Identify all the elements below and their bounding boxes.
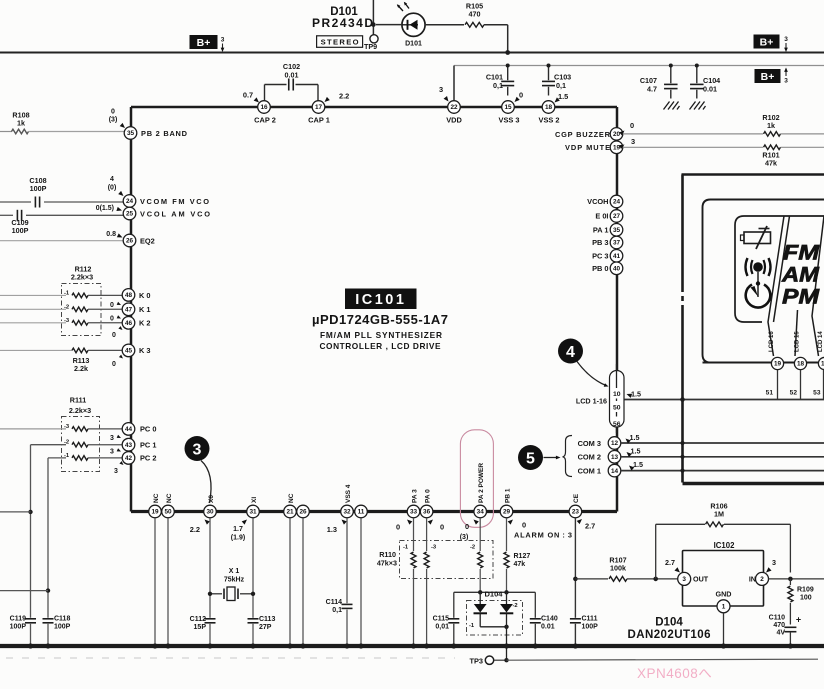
svg-text:K 2: K 2 (139, 318, 151, 327)
node ground junction (411, 643, 416, 648)
pin 43 PC 1 (122, 438, 135, 451)
svg-text:3: 3 (784, 78, 788, 85)
svg-text:PC 1: PC 1 (140, 440, 156, 449)
svg-text:OUT: OUT (693, 575, 709, 584)
node ground junction (424, 643, 429, 648)
wire stub left at y512 (0, 511, 31, 513)
svg-text:R109: R109 (797, 587, 814, 594)
node ground junction (533, 643, 538, 648)
wire stub left at y590 (0, 590, 48, 592)
svg-text:0.01: 0.01 (285, 71, 299, 80)
wire R110-1 to bus (413, 569, 415, 646)
wire R110-2 down (479, 569, 481, 592)
pin 14 COM 1 (608, 464, 621, 477)
svg-text:37: 37 (613, 240, 621, 247)
pin 19 bottom (149, 505, 162, 518)
node D104-1 anode junction (478, 590, 482, 594)
ground for C107 (664, 102, 680, 110)
pin 26 EQ2 (123, 234, 136, 247)
svg-text:CAP 2: CAP 2 (254, 116, 276, 125)
wire R112-3 to pin (88, 322, 122, 324)
svg-text:K 1: K 1 (139, 305, 151, 314)
svg-text:PB 1: PB 1 (504, 488, 511, 503)
resistor R127 (504, 552, 509, 568)
IC102 box (683, 551, 764, 607)
IC U101 outline left edge (130, 107, 133, 512)
svg-text:VCOH: VCOH (587, 197, 608, 206)
icon battery (crossed) (744, 232, 771, 244)
capacitor C108 (34, 197, 36, 208)
svg-text:100P: 100P (582, 624, 599, 631)
node ground junction (721, 643, 726, 648)
wire R108 to pin 35 (29, 131, 125, 133)
svg-text:15: 15 (504, 104, 512, 111)
svg-text:2.2k: 2.2k (74, 364, 88, 373)
svg-text:NC: NC (288, 493, 295, 503)
svg-text:2.2: 2.2 (190, 525, 200, 534)
wire K3 net (0, 349, 72, 351)
svg-text:26: 26 (126, 238, 134, 245)
svg-text:D104: D104 (485, 590, 504, 599)
LED emission arrows (398, 5, 404, 11)
svg-text:29: 29 (503, 509, 511, 516)
resistor R113 (72, 348, 88, 353)
node TP3 junction (504, 658, 508, 662)
svg-text:VDD: VDD (446, 116, 462, 125)
svg-text:0(1.5): 0(1.5) (96, 205, 114, 212)
ground for C104 (690, 102, 706, 110)
wire D104 cathode link (479, 613, 481, 627)
capacitor C103 wire (548, 66, 550, 81)
svg-text:TP9: TP9 (364, 42, 377, 51)
wire TP3 link (494, 659, 507, 661)
svg-text:25: 25 (126, 211, 134, 218)
wire from top to TP9 (372, 0, 374, 35)
svg-text:51: 51 (766, 390, 774, 397)
pin 22 VDD (448, 101, 461, 114)
capacitor C107 (664, 83, 678, 85)
node ground junction (165, 643, 170, 648)
wire K1 net left (0, 308, 66, 310)
svg-text:3: 3 (631, 137, 635, 146)
capacitor C115 (448, 618, 459, 620)
svg-text:2.7: 2.7 (665, 558, 675, 567)
node ground junction (207, 643, 212, 648)
node ground junction (45, 643, 50, 648)
wire C108 net (0, 201, 31, 203)
resistor R112-2 (72, 307, 88, 312)
wire R127 down (506, 569, 508, 592)
svg-text:1.5: 1.5 (558, 92, 568, 101)
svg-text:20: 20 (613, 131, 621, 138)
resistor network R112 dashed box (62, 284, 102, 336)
resistor network R111 dashed box (62, 417, 100, 472)
svg-text:X0: X0 (208, 495, 215, 503)
display inner box (703, 200, 824, 363)
svg-text:LCD 1-16: LCD 1-16 (576, 397, 607, 406)
wire LCD common (625, 399, 824, 401)
wire VDD riser (453, 66, 455, 102)
pin 44 PC 0 (122, 423, 135, 436)
pin 29 bottom (500, 505, 513, 518)
label STEREO box (317, 36, 363, 48)
capacitor C104 (690, 83, 704, 85)
svg-text:0: 0 (519, 91, 523, 100)
capacitor C101 (501, 80, 514, 82)
pin 47 K 1 (122, 303, 135, 316)
svg-text:PR2434D: PR2434D (312, 16, 373, 30)
svg-text:IN: IN (749, 575, 756, 584)
IC102 pin 3 OUT (678, 572, 691, 585)
wire pin 29 rail through bus to TP3 (506, 613, 508, 660)
node LED branch junction (371, 22, 376, 27)
svg-text:3: 3 (193, 442, 202, 459)
capacitor C114 (342, 603, 353, 605)
svg-text:-2: -2 (470, 545, 475, 551)
svg-text:0: 0 (396, 523, 400, 532)
pin 35 PB2 BAND (124, 127, 137, 140)
display outer box top edge (682, 173, 824, 176)
diode D104-1 (479, 592, 481, 604)
pin 18 VSS2 (542, 101, 555, 114)
svg-text:1.5: 1.5 (631, 447, 641, 456)
svg-text:4: 4 (110, 176, 114, 183)
wire COM 3 (621, 442, 824, 444)
svg-text:30: 30 (206, 509, 214, 516)
capacitor C102 bridge wires (264, 85, 266, 101)
svg-text:17: 17 (315, 104, 323, 111)
pin 26 bottom (297, 505, 310, 518)
svg-text:470: 470 (469, 10, 481, 19)
display pin 18 (794, 357, 806, 369)
svg-text:IC101: IC101 (355, 292, 406, 308)
svg-text:VDP MUTE: VDP MUTE (565, 143, 610, 152)
svg-text:CAP 1: CAP 1 (308, 116, 330, 125)
svg-text:FM: FM (783, 242, 820, 265)
pin 23 bottom (569, 505, 582, 518)
node COM 2 / display box edge (680, 455, 684, 459)
svg-text:10: 10 (613, 391, 621, 398)
svg-text:0: 0 (465, 522, 469, 531)
callout 5 arrow (544, 457, 558, 459)
svg-text:COM 2: COM 2 (578, 453, 601, 462)
node R105/bus junction (505, 50, 510, 55)
svg-text:GND: GND (716, 590, 732, 599)
crystal X1 (223, 589, 225, 600)
svg-text:+: + (796, 615, 801, 625)
svg-text:0,1: 0,1 (493, 81, 503, 90)
svg-text:3: 3 (114, 468, 118, 475)
svg-text:PA 3: PA 3 (411, 489, 418, 503)
svg-text:PB 3: PB 3 (592, 238, 608, 247)
callout 3 (185, 436, 210, 461)
svg-text:53: 53 (813, 390, 821, 397)
IC U101 outline bottom edge (131, 510, 617, 513)
svg-text:47k×3: 47k×3 (377, 559, 397, 568)
svg-text:34: 34 (477, 509, 485, 516)
wire pin 50 to ground bus (167, 518, 169, 646)
svg-text:-3: -3 (64, 318, 70, 324)
svg-text:(1.9): (1.9) (231, 535, 245, 542)
node ground junction (28, 643, 33, 648)
IC102 pin 1 GND (717, 600, 730, 613)
wire pin 21 to ground bus (289, 518, 291, 646)
node VDD net line (454, 65, 824, 67)
pin 15 VSS3 (502, 101, 515, 114)
wire pin 26 to ground bus (302, 518, 304, 646)
svg-text:100P: 100P (54, 624, 71, 631)
svg-text:44: 44 (125, 426, 133, 433)
wire C140 drop (534, 592, 536, 618)
svg-text:-2: -2 (64, 304, 69, 310)
wire C109 net (0, 214, 13, 216)
pin 46 K 2 (122, 317, 135, 330)
resistor R101 (764, 145, 781, 150)
svg-text:EQ2: EQ2 (140, 237, 155, 246)
pin 31 bottom (247, 505, 260, 518)
svg-text:C110: C110 (769, 615, 785, 622)
svg-text:35: 35 (613, 227, 621, 234)
svg-text:PC 3: PC 3 (592, 251, 608, 260)
svg-text:(3): (3) (109, 117, 118, 124)
svg-text:PM: PM (782, 286, 820, 309)
svg-text:18: 18 (545, 104, 553, 111)
svg-text:C111: C111 (582, 616, 598, 623)
svg-text:C140: C140 (541, 616, 558, 623)
svg-text:16: 16 (260, 104, 268, 111)
callout 3 leader curve (201, 461, 211, 504)
svg-text:2.2k×3: 2.2k×3 (69, 406, 91, 415)
wire pin 19 to ground bus (154, 518, 156, 646)
power B+ label 2 (top right) (754, 35, 780, 49)
svg-text:K 3: K 3 (139, 346, 151, 355)
svg-text:45: 45 (125, 348, 133, 355)
wire R106 feedback loop (655, 524, 657, 579)
pin 21 bottom (284, 505, 297, 518)
wire pin 32 rail (346, 518, 348, 603)
node ground junction (152, 643, 157, 648)
wire R110-3 to bus (426, 569, 428, 646)
svg-text:1.3: 1.3 (327, 525, 337, 534)
svg-text:470: 470 (773, 622, 785, 629)
wire C118 rail (47, 458, 49, 618)
node X1 left (208, 592, 212, 596)
wire R111-1 to pin (88, 457, 122, 459)
svg-text:XPN4608へ: XPN4608へ (637, 666, 712, 681)
svg-text:47: 47 (125, 307, 133, 314)
LCD group inner line segments (616, 364, 618, 388)
wire R101 right (781, 146, 824, 148)
wire C115 drop (453, 592, 455, 618)
svg-text:ALARM ON : 3: ALARM ON : 3 (514, 531, 572, 540)
pin 37 PB 3 (610, 236, 623, 249)
node D104-2 anode junction (504, 590, 508, 594)
IC U101 outline right edge (616, 107, 619, 512)
node ground junction (300, 643, 305, 648)
LCD glass segment slant lines (768, 216, 784, 356)
wire TP3 to right (507, 659, 819, 660)
wire PC1 net corner (31, 444, 67, 446)
IC102 pin 2 IN (756, 572, 769, 585)
svg-text:3: 3 (784, 36, 788, 43)
svg-text:40: 40 (613, 266, 621, 273)
svg-text:(3): (3) (460, 534, 469, 541)
node ground junction (573, 643, 578, 648)
svg-text:27: 27 (613, 213, 621, 220)
resistor R112-3 (72, 321, 88, 326)
svg-text:36: 36 (423, 509, 431, 516)
display pin 19 (771, 357, 783, 369)
pin 45 K3 (122, 344, 135, 357)
capacitor C101 wire (507, 66, 509, 81)
svg-text:LCD 14: LCD 14 (818, 331, 824, 352)
wire pin 29 rail (506, 518, 508, 551)
wire pin 30 rail (209, 518, 211, 618)
node ground junction (287, 643, 292, 648)
pin 13 COM 2 (608, 451, 621, 464)
wire R105 to B+ bus (484, 24, 508, 26)
wire display pin 18 drop (800, 370, 802, 400)
svg-text:26: 26 (299, 509, 307, 516)
wire EQ2 net (0, 240, 123, 242)
wire pin 33 rail (413, 518, 415, 551)
node C104 junction (695, 64, 699, 68)
node CE/R107 junction (573, 577, 578, 582)
svg-text:PB 0: PB 0 (592, 264, 608, 273)
svg-text:0,1: 0,1 (556, 81, 566, 90)
svg-text:VCOM FM VCO: VCOM FM VCO (140, 197, 209, 206)
svg-text:2.2k×3: 2.2k×3 (71, 273, 93, 282)
svg-text:0: 0 (110, 316, 114, 323)
node ground junction (358, 643, 363, 648)
wire R108 net (0, 131, 12, 133)
wire CE rail (574, 518, 576, 618)
wire B+ top bus (0, 52, 824, 54)
wire display pin 17 drop (823, 370, 824, 400)
svg-text:48: 48 (125, 292, 133, 299)
svg-text:0,1: 0,1 (332, 607, 342, 614)
svg-text:0: 0 (440, 523, 444, 532)
svg-text:AM: AM (781, 264, 820, 287)
wire IC102 GND drop (723, 613, 725, 646)
svg-text:100P: 100P (30, 184, 47, 193)
svg-text:50: 50 (164, 509, 172, 516)
LCD glass outline (735, 216, 824, 322)
capacitor C109 (16, 210, 18, 221)
svg-text:C118: C118 (54, 616, 70, 623)
svg-text:3: 3 (221, 37, 225, 44)
COM bracket (563, 436, 573, 477)
wire PC0 net to left edge (0, 428, 66, 430)
pin 11 bottom (355, 505, 368, 518)
capacitor C102 (288, 79, 290, 91)
svg-text:C112: C112 (190, 616, 206, 623)
svg-text:-3: -3 (431, 545, 437, 551)
power B+ label 3 (on VDD net) (755, 69, 781, 83)
wire R112-1 to pin (88, 294, 122, 296)
node X1 right (251, 592, 255, 596)
svg-text:PA 1: PA 1 (593, 225, 609, 234)
svg-text:PC 0: PC 0 (140, 425, 156, 434)
wire D104 top link (454, 591, 536, 593)
capacitor C113 (248, 618, 259, 620)
svg-text:4V: 4V (776, 630, 785, 637)
svg-text:5: 5 (526, 451, 535, 468)
capacitor C111 (570, 618, 581, 620)
node ground junction (504, 643, 509, 648)
svg-text:3: 3 (682, 576, 686, 583)
svg-text:E 0I: E 0I (595, 212, 608, 221)
svg-text:3: 3 (772, 558, 776, 567)
wire LED cathode to R105 (426, 24, 464, 26)
svg-text:-1: -1 (469, 623, 475, 629)
svg-text:(0): (0) (108, 185, 117, 192)
dual diode D104 dashed box (467, 601, 523, 636)
svg-text:0.01: 0.01 (541, 624, 555, 631)
svg-text:R111: R111 (70, 396, 86, 405)
svg-text:0: 0 (110, 302, 114, 309)
wire display pin 19 drop (777, 370, 779, 400)
pin 30 bottom (204, 505, 217, 518)
svg-text:14: 14 (611, 468, 619, 475)
svg-text:33: 33 (410, 509, 418, 516)
wire C119 rail (30, 445, 32, 618)
value 1.5 at COM 3 (624, 437, 631, 444)
value 1.5 at COM 1 (628, 464, 635, 471)
node C103 top junction (547, 64, 551, 68)
wire LED anode (376, 24, 401, 26)
svg-text:47k: 47k (765, 159, 777, 168)
svg-text:2: 2 (760, 576, 764, 583)
pin 20 CGP BUZZER (610, 128, 623, 141)
svg-text:4.7: 4.7 (647, 85, 657, 94)
resistor R110-1 (411, 552, 416, 568)
svg-text:COM 3: COM 3 (578, 439, 601, 448)
svg-text:21: 21 (286, 509, 294, 516)
pin 16 CAP2 (258, 101, 271, 114)
svg-text:100: 100 (800, 595, 812, 602)
pin 17 CAP1 (312, 101, 325, 114)
display pin 17 (partial) (818, 357, 824, 369)
svg-text:LCD 16: LCD 16 (769, 331, 775, 352)
svg-text:3: 3 (110, 435, 114, 442)
svg-text:TP3: TP3 (469, 656, 483, 665)
wire crystal X1 (210, 593, 222, 595)
icon broadcast (753, 262, 763, 272)
resistor R110-2 (478, 552, 483, 568)
resistor network R110 dashed box (400, 541, 494, 579)
display outer box bottom edge (683, 482, 824, 485)
diode D101 (LED) (402, 13, 425, 36)
node D104 cathode junction (504, 625, 508, 629)
node R106 left junction (653, 577, 658, 582)
resistor R107 (609, 577, 627, 582)
value 1.5 at LCD group (626, 392, 632, 398)
diode D104-2 (506, 592, 508, 604)
svg-text:31: 31 (249, 509, 257, 516)
svg-text:VSS 4: VSS 4 (345, 484, 352, 503)
svg-text:1.5: 1.5 (633, 460, 643, 469)
svg-text:CONTROLLER , LCD DRIVE: CONTROLLER , LCD DRIVE (320, 341, 441, 351)
pin 12 COM 3 (608, 437, 621, 450)
node C118 rail junction (46, 588, 50, 592)
svg-text:15P: 15P (194, 624, 207, 631)
svg-text:PA 0: PA 0 (424, 489, 431, 503)
callout 5 (518, 445, 543, 470)
wire B+3 arrow 3 (785, 69, 787, 77)
svg-text:1.5: 1.5 (630, 433, 640, 442)
wire K2 net left (0, 322, 66, 324)
